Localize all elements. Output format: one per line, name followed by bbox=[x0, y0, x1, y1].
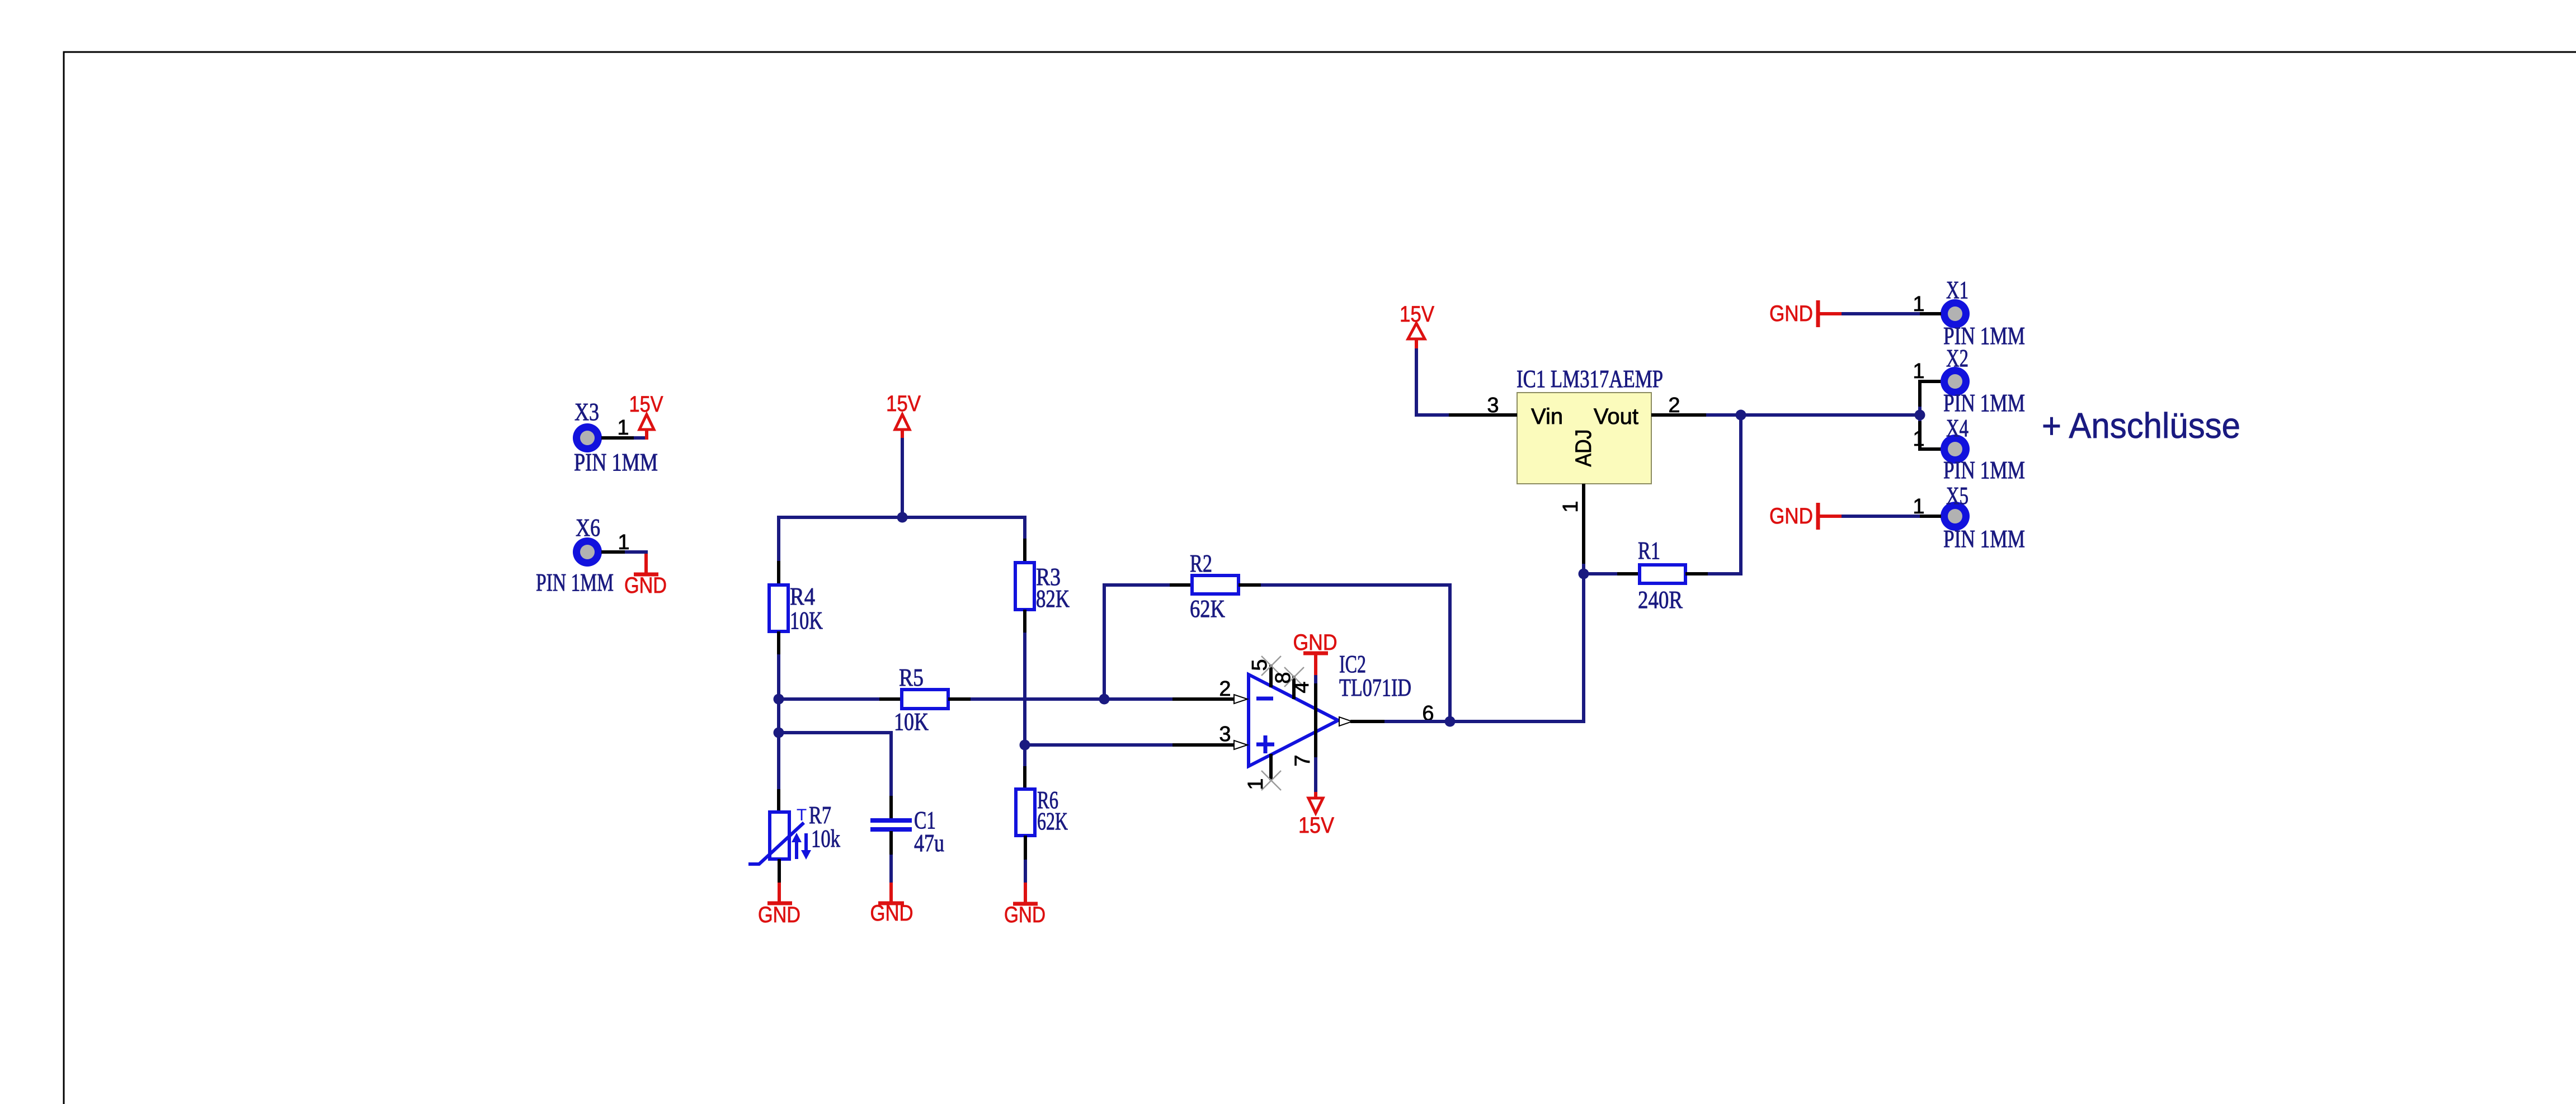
svg-text:GND: GND bbox=[870, 901, 913, 926]
supply 15V (X3) bbox=[629, 392, 663, 440]
svg-text:15V: 15V bbox=[1298, 813, 1334, 838]
connector X3 bbox=[573, 423, 602, 452]
svg-text:PIN 1MM: PIN 1MM bbox=[1943, 525, 2025, 553]
ground GND (C1) bbox=[870, 831, 913, 926]
svg-text:3: 3 bbox=[1487, 394, 1499, 417]
wire R5 to op-amp input 2 bbox=[971, 697, 1234, 701]
svg-text:R2: R2 bbox=[1190, 550, 1212, 577]
svg-text:GND: GND bbox=[624, 573, 667, 598]
svg-text:R4: R4 bbox=[790, 583, 815, 610]
wire IC1 Vout pin 2 bbox=[1651, 413, 1741, 417]
junction R5/R2 bbox=[1099, 694, 1110, 705]
pin arrow input 3 bbox=[1234, 740, 1247, 749]
wire X1 lead bbox=[1842, 312, 1941, 315]
pin 4 / pin 7 through line bbox=[1314, 675, 1317, 792]
svg-text:1: 1 bbox=[617, 416, 629, 440]
svg-text:15V: 15V bbox=[629, 392, 663, 417]
junction ADJ/R1 bbox=[1579, 569, 1589, 579]
svg-text:10K: 10K bbox=[894, 708, 929, 735]
wire X5 lead bbox=[1842, 515, 1941, 518]
wire to op-amp input 3 bbox=[1025, 743, 1234, 747]
junction Vout/R1 bbox=[1736, 410, 1746, 421]
voltage regulator IC1 bbox=[1517, 393, 1651, 484]
svg-text:IC1 LM317AEMP: IC1 LM317AEMP bbox=[1517, 365, 1663, 393]
svg-text:X1: X1 bbox=[1946, 276, 1969, 304]
wire IC1 Vin pin 3 bbox=[1416, 348, 1517, 415]
ground GND (X6) bbox=[624, 554, 667, 598]
ground GND (X5) bbox=[1769, 503, 1842, 530]
svg-text:47u: 47u bbox=[914, 829, 944, 857]
svg-text:PIN 1MM: PIN 1MM bbox=[1943, 456, 2025, 484]
svg-text:X6: X6 bbox=[576, 514, 600, 541]
svg-text:X2: X2 bbox=[1946, 345, 1969, 372]
svg-text:PIN 1MM: PIN 1MM bbox=[574, 449, 658, 476]
resistor R6 bbox=[1016, 789, 1035, 883]
svg-text:X4: X4 bbox=[1946, 414, 1969, 442]
svg-text:10K: 10K bbox=[790, 607, 823, 634]
pin 1 stub with no-connect bbox=[1261, 754, 1281, 790]
ground GND (IC2 pin 4) bbox=[1293, 630, 1338, 675]
pin arrow input 2 bbox=[1234, 695, 1247, 704]
wire X6 pin lead bbox=[601, 552, 646, 555]
resistor R3 bbox=[1015, 516, 1034, 633]
wire R4 bottom to junctions bbox=[777, 654, 780, 789]
svg-text:T: T bbox=[797, 806, 807, 824]
svg-text:R1: R1 bbox=[1638, 537, 1660, 564]
svg-text:3: 3 bbox=[1219, 723, 1231, 746]
svg-text:R5: R5 bbox=[899, 664, 924, 691]
svg-text:1: 1 bbox=[618, 531, 629, 554]
svg-text:2: 2 bbox=[1219, 677, 1231, 701]
wire C1 branch bbox=[779, 733, 891, 819]
pin arrow output 6 bbox=[1339, 717, 1352, 726]
connector X5 bbox=[1941, 502, 1970, 531]
resistor R1 bbox=[1584, 415, 1741, 583]
svg-text:GND: GND bbox=[1769, 504, 1813, 529]
connector X4 bbox=[1941, 435, 1970, 464]
svg-text:7: 7 bbox=[1291, 754, 1315, 766]
svg-text:X3: X3 bbox=[574, 398, 599, 426]
svg-text:5: 5 bbox=[1248, 659, 1271, 671]
svg-text:15V: 15V bbox=[886, 391, 921, 416]
svg-text:TL071ID: TL071ID bbox=[1339, 674, 1411, 701]
svg-text:4: 4 bbox=[1290, 681, 1313, 693]
supply 15V center bbox=[886, 391, 921, 438]
svg-text:Vin: Vin bbox=[1531, 404, 1563, 429]
wire to X4 bbox=[1920, 415, 1941, 449]
svg-text:X5: X5 bbox=[1946, 482, 1969, 509]
svg-text:1: 1 bbox=[1913, 427, 1924, 451]
wire IC1 ADJ pin 1 bbox=[1582, 484, 1585, 574]
thermistor R7 bbox=[748, 789, 811, 864]
resistor R5 bbox=[779, 690, 971, 709]
wire to X2 bbox=[1920, 381, 1941, 415]
wire net 15V left rail bbox=[779, 437, 1025, 561]
wire R3 bottom to junction and R6 bbox=[1023, 633, 1026, 789]
supply 15V (IC1) bbox=[1400, 302, 1434, 350]
svg-text:Vout: Vout bbox=[1594, 404, 1638, 429]
svg-text:82K: 82K bbox=[1036, 585, 1070, 612]
svg-text:1: 1 bbox=[1559, 501, 1583, 512]
svg-text:1: 1 bbox=[1244, 778, 1268, 790]
op-amp IC2 bbox=[1249, 674, 1338, 766]
ground GND (R6) bbox=[1004, 883, 1046, 927]
svg-text:PIN 1MM: PIN 1MM bbox=[1943, 389, 2025, 417]
junction R3/R6/op-amp input 3 bbox=[1020, 740, 1030, 751]
connector X1 bbox=[1941, 299, 1970, 328]
pin 5 stub with no-connect bbox=[1261, 656, 1281, 687]
wire op-amp output bbox=[1350, 574, 1584, 721]
junction at 15V rail bbox=[897, 512, 908, 523]
connector X2 bbox=[1941, 367, 1970, 396]
junction R4/C1 branch bbox=[774, 728, 784, 738]
svg-text:GND: GND bbox=[1293, 630, 1338, 655]
svg-text:10k: 10k bbox=[811, 825, 840, 852]
svg-text:62K: 62K bbox=[1037, 808, 1068, 835]
wire X3 pin lead bbox=[601, 436, 648, 440]
svg-text:ADJ: ADJ bbox=[1571, 430, 1596, 467]
ground GND (X1) bbox=[1769, 300, 1842, 327]
resistor R2 bbox=[1104, 575, 1450, 721]
svg-text:+ Anschlüsse: + Anschlüsse bbox=[2042, 405, 2240, 446]
svg-text:PIN 1MM: PIN 1MM bbox=[536, 569, 614, 596]
capacitor C1 bbox=[870, 820, 912, 829]
ground GND (R7) bbox=[758, 859, 800, 927]
svg-text:GND: GND bbox=[758, 903, 800, 927]
svg-text:62K: 62K bbox=[1190, 595, 1225, 622]
supply 15V (IC2 pin 7) bbox=[1298, 792, 1334, 838]
wire Vout to connectors bbox=[1741, 413, 1920, 417]
svg-text:1: 1 bbox=[1913, 360, 1924, 383]
svg-text:240R: 240R bbox=[1638, 586, 1683, 614]
pin 8 stub with no-connect bbox=[1284, 667, 1304, 699]
svg-text:2: 2 bbox=[1668, 394, 1680, 417]
resistor R4 bbox=[769, 561, 788, 654]
svg-text:GND: GND bbox=[1004, 903, 1046, 927]
junction R4/R5 bbox=[774, 694, 784, 705]
junction output/R2 bbox=[1445, 716, 1456, 727]
svg-text:15V: 15V bbox=[1400, 302, 1434, 327]
junction X2/X4 bbox=[1915, 410, 1925, 421]
connector X6 bbox=[573, 537, 602, 567]
svg-text:GND: GND bbox=[1769, 301, 1813, 326]
